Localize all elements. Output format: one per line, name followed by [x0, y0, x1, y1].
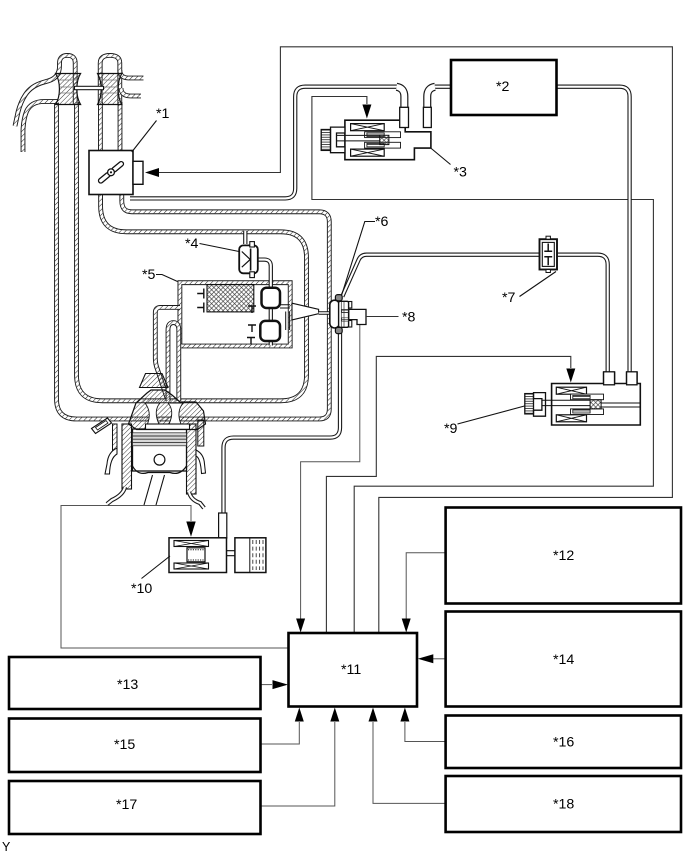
hose stub right lower [121, 88, 141, 96]
throttle body *1 [89, 151, 143, 195]
svg-text:*2: *2 [496, 79, 510, 95]
label *4 leader [200, 244, 240, 252]
label *6 leader [342, 222, 376, 296]
piston ring band [133, 433, 187, 446]
box *18 [446, 776, 681, 832]
box *16 [446, 716, 681, 769]
outlet needle line [319, 311, 338, 314]
arrowhead into *3 [362, 105, 371, 119]
wire *12 to ECM [406, 553, 445, 620]
arrowhead into *10 [186, 522, 195, 537]
grommet *6 [330, 295, 352, 334]
svg-text:Y: Y [2, 840, 11, 854]
arrowhead into *11 top left [296, 619, 305, 633]
intake valve [146, 424, 190, 429]
canister valve lower [260, 321, 280, 341]
svg-text:*5: *5 [142, 267, 156, 283]
svg-text:*17: *17 [116, 797, 137, 813]
box *2 [451, 60, 557, 115]
piston body [133, 429, 187, 471]
canister baffle stub C [248, 306, 256, 313]
svg-text:*15: *15 [114, 737, 135, 753]
svg-text:*14: *14 [553, 652, 574, 668]
hose inner intake loop H2 (throttle *1 to engine, inner) [77, 102, 307, 401]
plain hose valve *7 down to VSV *9 [557, 255, 608, 380]
engine left outer strip [113, 424, 118, 450]
filter valve *7 [540, 236, 558, 272]
wire ECM to VSV *9 (net N1) [326, 356, 570, 633]
arrowhead into *11 left [273, 680, 289, 689]
engine right foot [189, 492, 204, 508]
wire *18 to ECM [373, 722, 446, 803]
label *1 leader [132, 121, 157, 153]
link bar between funnels [75, 86, 104, 89]
engine cylinder wall left [122, 424, 132, 489]
wire *15 to ECM [261, 722, 300, 744]
arrowhead *18 into *11 bottom [369, 708, 378, 722]
arrowhead into *11 right [418, 654, 434, 663]
svg-text:*7: *7 [502, 290, 516, 306]
sensor block *8 [349, 309, 366, 324]
arrowhead *16 into *11 bottom [400, 708, 409, 722]
wide stub into *3 right port [427, 87, 435, 122]
box *11 ECM [289, 633, 418, 707]
injector boss [140, 374, 169, 388]
arrowhead into *9 [566, 369, 575, 383]
wire sensor *8 to ECM [301, 325, 360, 620]
engine right outer flange [198, 420, 204, 446]
wire *14 to ECM [433, 658, 446, 660]
intake port curtain left [145, 403, 160, 424]
plain hose grommet *6 up to valve *7 [342, 255, 540, 297]
canister valve upper [262, 288, 281, 308]
plain hose throttle *1 to VSV *3 lower port [130, 87, 397, 199]
engine right hook [196, 450, 206, 474]
VSV *3 [321, 107, 431, 159]
plain hose *2 right port down to VSV *9 [556, 87, 630, 380]
hose air horn loop left with left exit [15, 55, 75, 126]
label *3 leader [431, 149, 450, 165]
hose air horn loop right [100, 55, 120, 104]
canister baffle stub D [248, 325, 256, 332]
canister baffle stub B [197, 303, 204, 313]
label *9 leader [458, 406, 525, 424]
engine left hook [105, 448, 117, 474]
wire *13 to ECM [261, 684, 273, 686]
svg-text:*10: *10 [131, 581, 152, 597]
canister baffle stub E [247, 338, 255, 345]
canister baffle stub A [197, 289, 204, 299]
piston skirt [133, 466, 187, 473]
plain hose *2 left port to VSV *3 [435, 85, 452, 89]
hose branch lower left exit [23, 102, 59, 153]
svg-text:*4: *4 [185, 236, 199, 252]
box *12 [446, 508, 681, 604]
canister air vent tube to engine [155, 307, 180, 398]
plain hose grommet *6 down to VSV *10 [224, 330, 341, 514]
svg-text:*18: *18 [553, 797, 574, 813]
hose legs from right horn down to throttle *1 [100, 102, 120, 151]
wire ECM to throttle body *1 (net N3) [157, 47, 672, 633]
wire ECM to VSV *10 [61, 506, 289, 649]
arrowhead *15 into *11 bottom [295, 708, 304, 722]
svg-text:*9: *9 [444, 421, 458, 437]
svg-text:*12: *12 [553, 548, 574, 564]
svg-text:*16: *16 [553, 735, 574, 751]
label line *8 [366, 316, 399, 318]
svg-text:*3: *3 [454, 165, 468, 181]
svg-text:*13: *13 [117, 677, 138, 693]
intake port curtain right [168, 403, 183, 424]
canister *5 housing outline [180, 283, 290, 346]
box *14 [446, 612, 681, 707]
intake port funnel right [98, 74, 122, 105]
wide stub into *3 rear port [397, 87, 405, 122]
VSV *10 [169, 513, 266, 573]
arrowhead *17 into *11 bottom [330, 708, 339, 722]
cylinder head mass [129, 390, 206, 430]
arrowhead into *1 [145, 168, 159, 177]
box *17 [9, 781, 261, 834]
label *5 leader [156, 275, 178, 282]
canister charcoal crosshatch [207, 285, 254, 312]
svg-text:*11: *11 [341, 662, 361, 678]
piston pin [154, 454, 165, 465]
svg-text:*1: *1 [156, 106, 170, 122]
VSV *9 [525, 372, 641, 425]
hose stub right upper [120, 70, 144, 78]
engine left foot [107, 487, 125, 504]
wire *17 to ECM [261, 722, 335, 806]
engine cylinder wall right [187, 424, 197, 494]
intake port funnel left [56, 74, 81, 105]
arrowhead into *11 top right [402, 619, 411, 633]
box *15 [9, 719, 261, 773]
canister outlet cone [292, 303, 319, 320]
wire *16 to ECM [405, 722, 446, 742]
label *7 leader [520, 272, 557, 297]
wire ECM to VSV *3 (net N2) [312, 97, 654, 634]
plain tube check valve *4 to canister [245, 231, 270, 346]
slanted port slot [92, 418, 112, 434]
label *10 leader [142, 556, 171, 579]
svg-text:*8: *8 [402, 310, 416, 326]
canister internal passages [280, 305, 290, 330]
hose outer intake loop H1 (throttle *1 to engine, outer) [57, 102, 330, 419]
connecting rod lines [144, 475, 165, 505]
svg-text:*6: *6 [375, 214, 389, 230]
check valve *4 [239, 242, 258, 278]
box *13 [9, 657, 261, 709]
inverted-U pipe beside canister [168, 323, 179, 401]
